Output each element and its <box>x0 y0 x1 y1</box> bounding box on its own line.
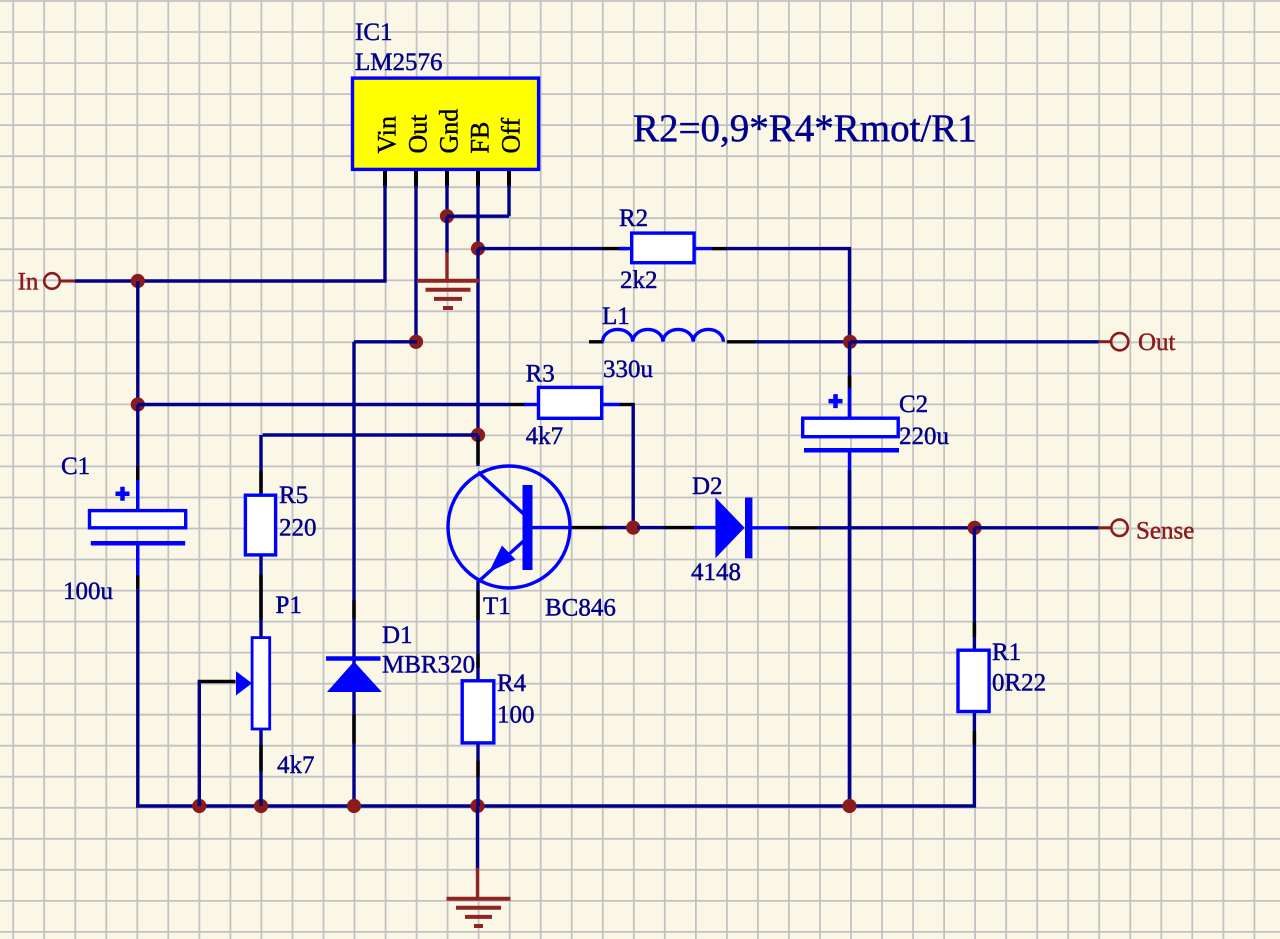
wire Sense line to terminal <box>975 526 1099 529</box>
capacitor C2 plus sign <box>829 394 843 408</box>
resistor R3 body <box>539 387 602 418</box>
diode D2 cathode bar <box>745 498 752 559</box>
transistor T1 emitter line <box>479 538 527 581</box>
wire P1 wiper vertical to rail <box>198 682 201 807</box>
wire R3 corner down to base <box>632 405 635 528</box>
transistor T1 collector line <box>478 472 527 517</box>
junction Sense/R1 node <box>968 521 982 535</box>
junction FB/R2 node <box>471 242 485 256</box>
wire corner down D1 branch <box>352 342 355 808</box>
wire R5-P1 black segment <box>259 574 262 620</box>
wire pin FB vertical <box>476 185 479 249</box>
transistor T1 base line <box>533 526 572 529</box>
svg-text:Off: Off <box>497 118 526 154</box>
wire C1 top lead black segment <box>136 466 139 480</box>
svg-text:100u: 100u <box>63 578 114 605</box>
junction T1 base/R3/D2 node <box>626 521 640 535</box>
wire ground lead below rail (red) <box>476 868 479 899</box>
wire Sense terminal stub (red) <box>1099 526 1112 529</box>
capacitor C2 bottom plate <box>804 448 899 453</box>
svg-text:Vin: Vin <box>373 116 402 153</box>
transistor T1 base bar <box>523 485 533 570</box>
wire R5 top lead black segment <box>259 471 262 494</box>
capacitor C2 top plate <box>803 418 899 437</box>
wire C2 top lead blue segment <box>848 388 851 420</box>
wire R2 right lead (blue) <box>694 247 713 250</box>
wire bottom rail <box>136 804 976 807</box>
svg-text:220: 220 <box>279 515 317 542</box>
svg-text:FB: FB <box>466 122 495 154</box>
svg-text:C2: C2 <box>899 391 928 418</box>
svg-text:P1: P1 <box>276 592 302 619</box>
wire R1 top lead black segment <box>973 622 976 637</box>
pin stub IC1 pin 5 (black) <box>507 169 511 186</box>
wire D1 bottom lead black segment <box>352 714 355 743</box>
wire P1 wiper horizontal (black) <box>198 680 236 683</box>
svg-text:BC846: BC846 <box>545 595 616 622</box>
svg-text:4148: 4148 <box>691 559 741 586</box>
junction rail/P1 wiper <box>192 799 206 813</box>
wire D2 left black segment <box>665 526 696 529</box>
wire C1 node vertical to C1 top <box>136 405 139 513</box>
wire pin Off vertical <box>507 185 510 216</box>
transistor T1 body circle <box>448 466 570 588</box>
wire Out line to terminal <box>850 340 1099 343</box>
wire R4 bottom black segment <box>476 761 479 777</box>
pin stub IC1 pin 2 (black) <box>414 169 418 186</box>
svg-text:C1: C1 <box>61 453 90 480</box>
junction In/C1 node <box>131 274 145 288</box>
svg-text:R2=0,9*R4*Rmot/R1: R2=0,9*R4*Rmot/R1 <box>633 107 977 150</box>
svg-text:D2: D2 <box>692 473 723 500</box>
wire Gnd node down (blue part) <box>445 216 448 253</box>
wire D2 cathode lead (blue) <box>752 526 789 529</box>
svg-text:D1: D1 <box>382 622 413 649</box>
wire ground lead below rail (blue) <box>476 806 479 869</box>
junction Gnd/Off node <box>440 209 454 223</box>
wire In stub (red) <box>60 280 77 283</box>
wire P1 bottom to rail <box>259 729 262 806</box>
wire C2 top lead black segment <box>848 376 851 388</box>
wire FB node to R2 left <box>478 247 602 250</box>
svg-text:4k7: 4k7 <box>277 752 315 779</box>
wire C2 top from Out node <box>848 342 851 419</box>
svg-text:Out: Out <box>404 114 433 154</box>
wire pin Out corner to L1 line <box>354 340 417 343</box>
wire R1 bottom vertical <box>973 712 976 808</box>
svg-text:R2: R2 <box>619 205 648 232</box>
svg-text:R1: R1 <box>992 639 1021 666</box>
wire T1 base lead (black) <box>571 526 606 529</box>
junction rail/C2 <box>842 799 856 813</box>
wire C2 bottom vertical <box>848 450 851 808</box>
wire R2 left lead (black) <box>602 247 627 250</box>
wire R5 bottom to P1 top <box>259 555 262 638</box>
svg-text:IC1: IC1 <box>355 19 393 46</box>
svg-text:Out: Out <box>1138 329 1176 356</box>
wire pin Gnd vertical <box>445 185 448 216</box>
potentiometer P1 body <box>252 638 270 729</box>
svg-text:MBR320: MBR320 <box>382 652 475 679</box>
svg-text:220u: 220u <box>899 423 950 450</box>
wire D1 top lead black segment <box>352 600 355 619</box>
junction C1/R3 node <box>131 397 145 411</box>
capacitor C1 top plate <box>90 511 186 528</box>
junction FB/R5 node <box>471 428 485 442</box>
svg-text:R3: R3 <box>526 361 555 388</box>
diode D2 triangle <box>715 498 744 559</box>
wire Out terminal stub (red) <box>1099 340 1111 343</box>
svg-text:In: In <box>18 269 39 296</box>
wire FB vertical continued <box>476 249 479 435</box>
wire C1 bottom lead black segment <box>136 575 139 588</box>
svg-text:R4: R4 <box>497 670 527 697</box>
junction L1/C2/Out node <box>843 335 857 349</box>
ground symbol under IC1 <box>417 281 479 308</box>
svg-text:Sense: Sense <box>1136 518 1194 545</box>
wire R2 right lead (black) <box>712 247 727 250</box>
pin stub IC1 pin 4 (black) <box>476 169 480 186</box>
wire Gnd node down (red part) <box>445 252 448 281</box>
wire C1 node vertical upper <box>136 281 139 405</box>
svg-text:L1: L1 <box>602 303 630 330</box>
junction rail/D1 <box>347 799 361 813</box>
wire R1 top vertical <box>973 528 976 651</box>
wire In horizontal to pin Vin <box>75 279 387 282</box>
wire FB down to T1 collector <box>476 435 479 466</box>
svg-text:T1: T1 <box>483 593 511 620</box>
wire R5 line horizontal <box>263 433 478 436</box>
transistor T1 emitter arrow <box>489 546 516 573</box>
wire P1 bottom black segment <box>259 745 262 771</box>
wire C1 bottom to rail <box>136 543 139 808</box>
svg-text:Gnd: Gnd <box>435 109 464 154</box>
wire C1 bottom lead blue segment <box>136 543 139 576</box>
wire L1 to Out junction <box>755 340 851 343</box>
wire R3 left lead (black) <box>510 403 526 406</box>
wire Off to Gnd horizontal <box>447 214 509 217</box>
wire T1 base to junction <box>604 526 633 529</box>
ground symbol bottom <box>447 899 511 926</box>
wire D2 anode lead (blue) <box>694 526 716 529</box>
wire R1 bottom lead black segment <box>973 731 976 745</box>
terminal Out circle <box>1111 333 1128 350</box>
resistor R2 body <box>632 233 694 263</box>
wire D2 to Sense junction <box>818 526 976 529</box>
wire T1 collector lead (black) <box>476 440 479 464</box>
resistor R5 body <box>245 495 275 555</box>
capacitor C1 plus sign <box>116 487 130 501</box>
junction pin Out / L1 line <box>409 335 423 349</box>
terminal In circle <box>44 273 60 289</box>
IC U1 LM2576 body <box>353 78 539 169</box>
svg-text:R5: R5 <box>279 482 308 509</box>
wire C2 bottom vertical navy <box>848 470 851 808</box>
diode D1 triangle <box>327 662 382 693</box>
terminal Sense circle <box>1111 520 1127 536</box>
inductor L1 coil <box>603 329 724 341</box>
wire R2 left lead (blue) <box>619 247 632 250</box>
svg-text:330u: 330u <box>603 356 654 383</box>
wire R4 top black segment <box>476 654 479 668</box>
svg-text:4k7: 4k7 <box>526 423 564 450</box>
capacitor C1 bottom plate <box>91 541 185 546</box>
svg-text:0R22: 0R22 <box>992 670 1046 697</box>
pin stub IC1 pin 3 (black) <box>445 169 449 186</box>
wire R3 right lead (black) <box>620 403 635 406</box>
junction rail/P1 bottom <box>254 799 268 813</box>
wire T1 emitter vertical <box>476 581 479 682</box>
wire base node to D2 <box>637 526 666 529</box>
svg-text:LM2576: LM2576 <box>355 49 443 76</box>
wire R2 right to corner <box>726 247 851 250</box>
pin stub IC1 pin 1 (black) <box>383 169 387 186</box>
wire R4 bottom vertical <box>476 743 479 806</box>
wire C1 top lead blue segment <box>136 480 139 512</box>
wire L1 left lead (black) <box>589 340 604 343</box>
wire T1 emitter black segment <box>476 590 479 620</box>
junction rail/R4-ground <box>470 799 484 813</box>
svg-text:100: 100 <box>497 702 535 729</box>
wire D2 cathode lead (black) <box>788 526 819 529</box>
wire R2 corner down to L1 line <box>848 249 851 342</box>
potentiometer P1 wiper arrow <box>236 671 252 695</box>
wire L1 right lead (black) <box>727 340 757 343</box>
diode D1 cathode bar <box>326 656 381 661</box>
wire R5 top corner vertical <box>259 435 262 495</box>
wire R3 right lead (blue) <box>602 403 621 406</box>
wire pin Vin vertical <box>383 185 386 281</box>
resistor R1 body <box>958 650 989 711</box>
svg-text:2k2: 2k2 <box>620 267 658 294</box>
wire pin Out vertical <box>414 185 417 342</box>
wire R3 left lead (blue) <box>524 403 539 406</box>
wire R3 line from C1 node <box>138 403 510 406</box>
resistor R4 body <box>462 681 494 743</box>
